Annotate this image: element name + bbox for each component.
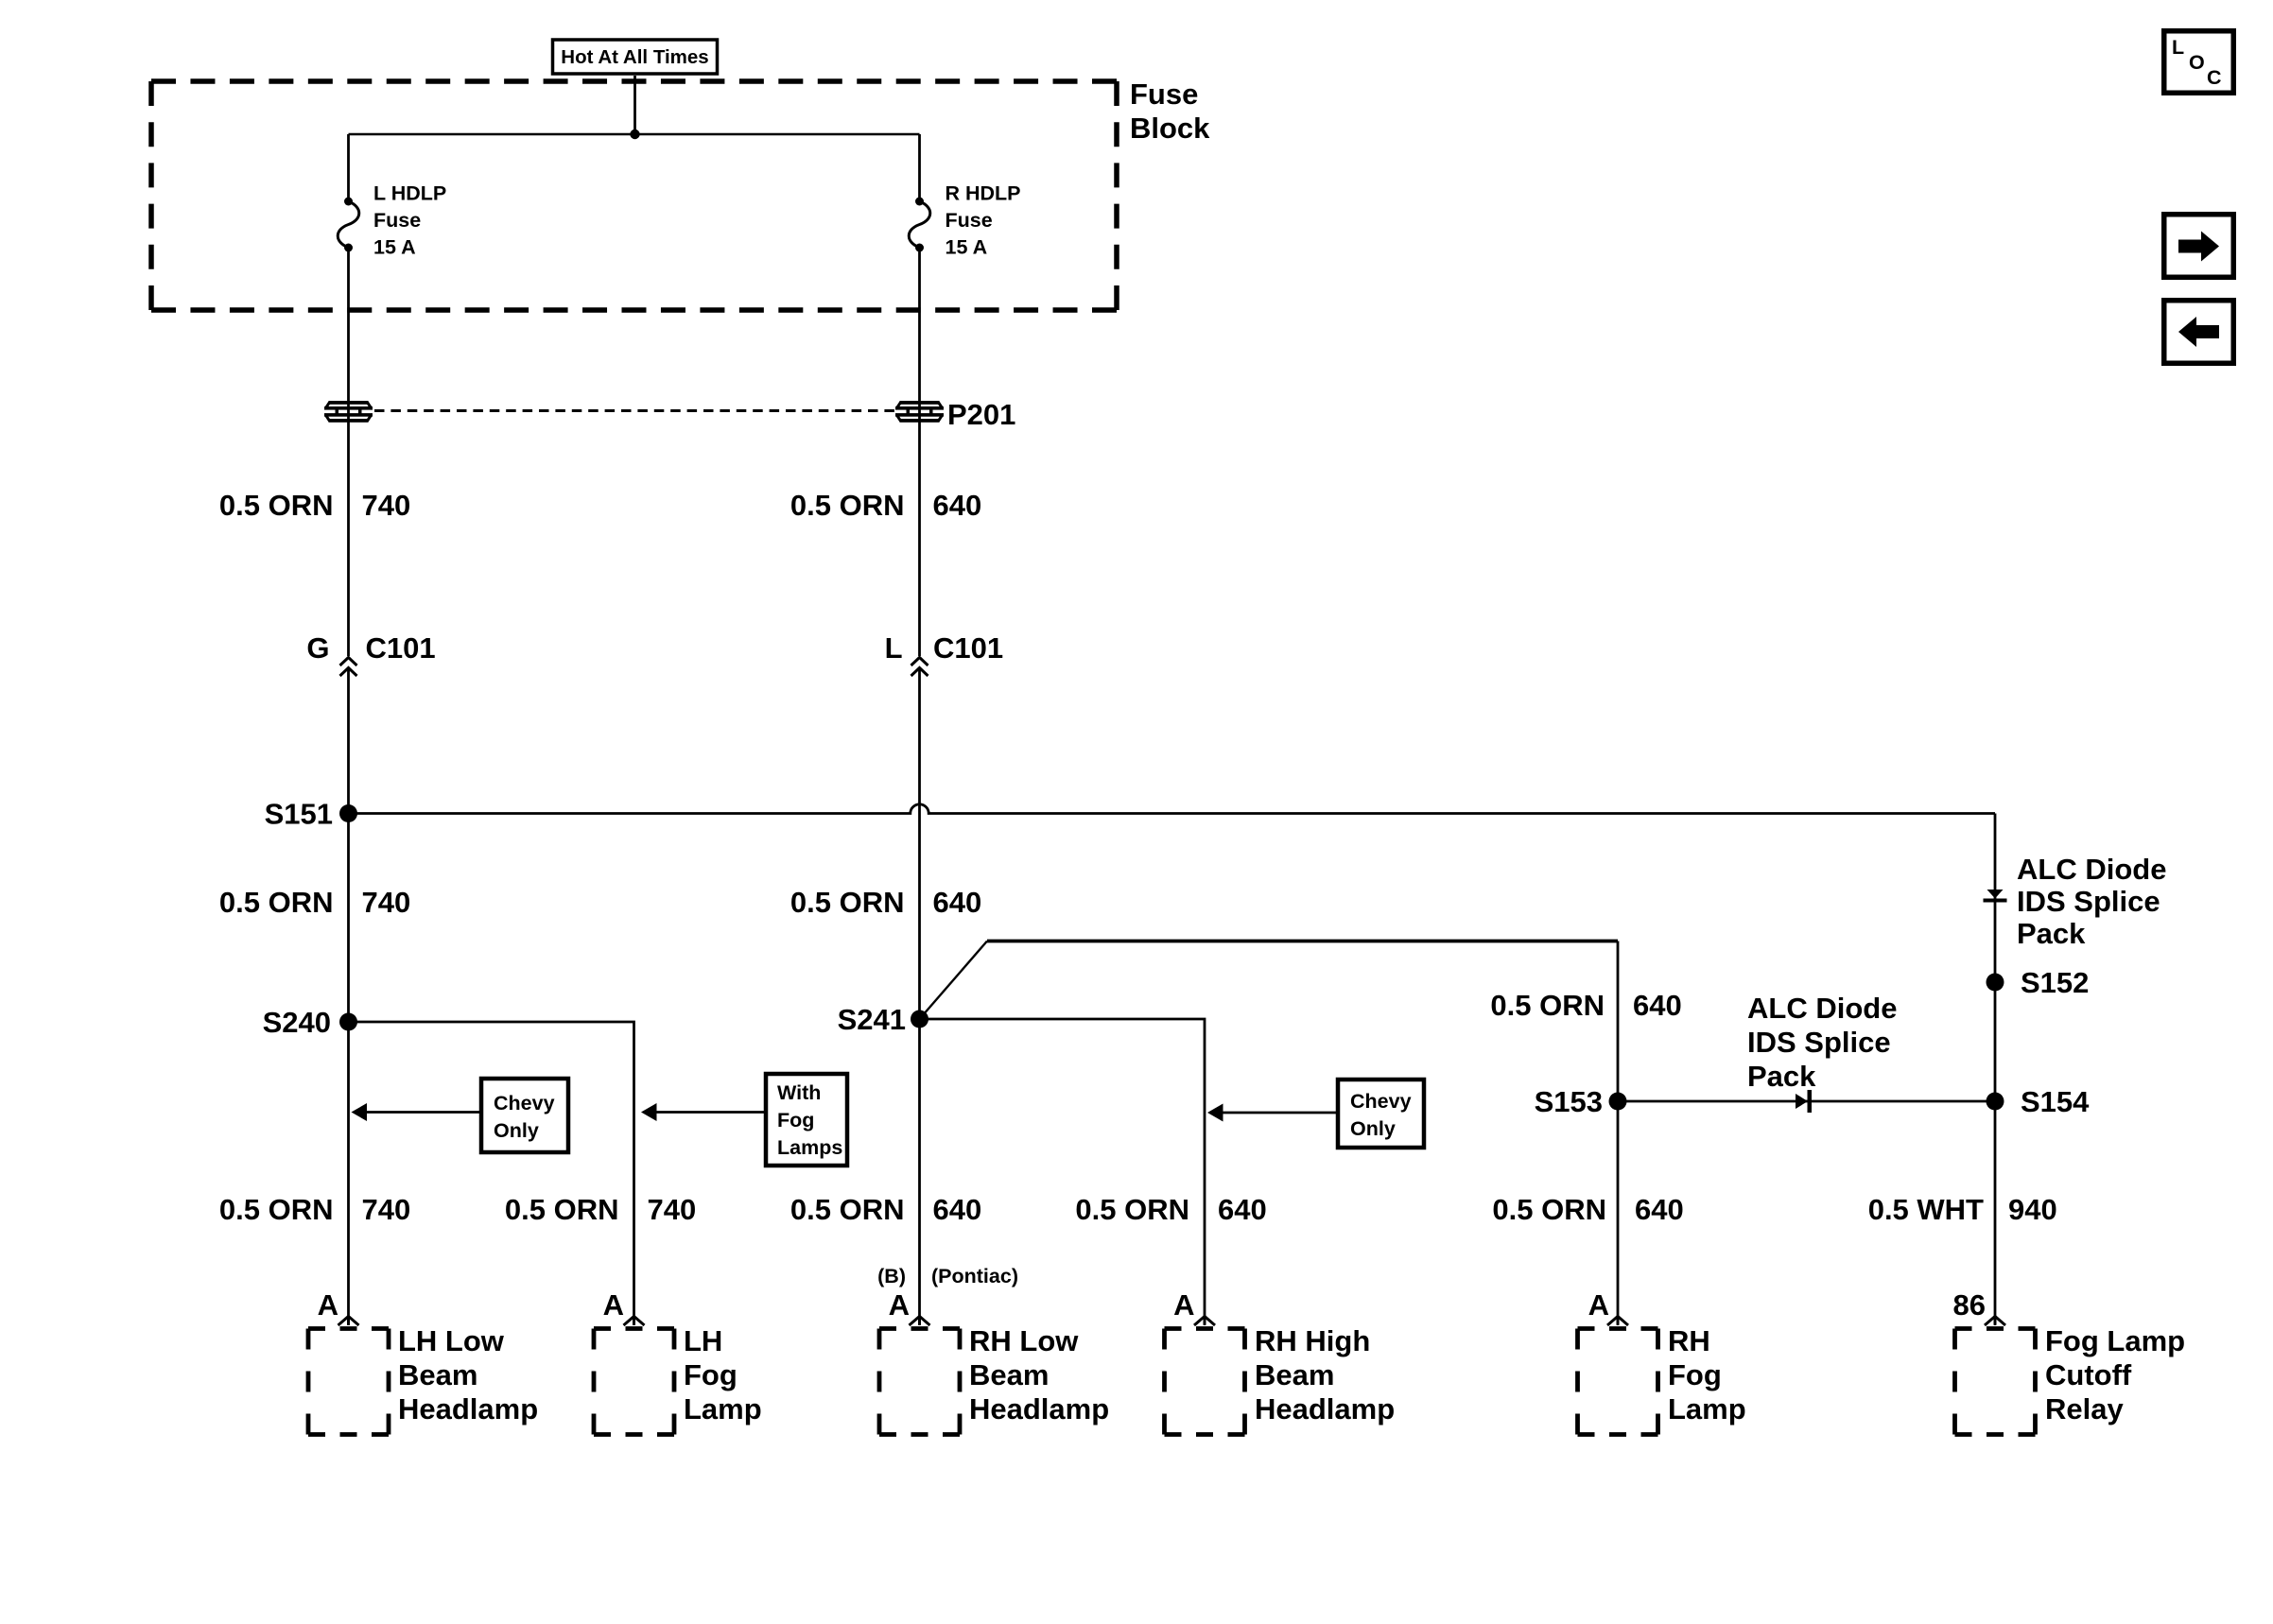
svg-text:A: A (1173, 1288, 1194, 1322)
svg-text:Fuse: Fuse (946, 209, 993, 232)
svg-text:S241: S241 (838, 1003, 906, 1036)
svg-text:Headlamp: Headlamp (1255, 1392, 1395, 1425)
svg-text:C: C (2207, 66, 2222, 89)
svg-text:(B): (B) (877, 1265, 906, 1287)
svg-text:C101: C101 (933, 631, 1003, 665)
svg-text:640: 640 (1218, 1193, 1267, 1226)
svg-text:With: With (777, 1081, 821, 1104)
svg-text:IDS Splice: IDS Splice (1747, 1026, 1891, 1059)
svg-text:Only: Only (1350, 1117, 1396, 1140)
svg-text:0.5 ORN: 0.5 ORN (505, 1193, 619, 1226)
svg-text:Fuse: Fuse (1130, 78, 1198, 111)
svg-text:S154: S154 (2021, 1085, 2090, 1118)
svg-text:Beam: Beam (969, 1358, 1049, 1391)
svg-text:640: 640 (1635, 1193, 1684, 1226)
svg-text:86: 86 (1953, 1288, 1986, 1322)
svg-text:L: L (885, 631, 903, 665)
svg-text:740: 740 (362, 489, 411, 522)
svg-text:L: L (2172, 36, 2184, 59)
svg-text:ALC Diode: ALC Diode (1747, 992, 1897, 1025)
svg-text:Lamp: Lamp (1668, 1392, 1746, 1425)
svg-text:Pack: Pack (2017, 917, 2086, 950)
svg-text:Lamps: Lamps (777, 1136, 842, 1159)
svg-text:O: O (2189, 51, 2205, 74)
svg-text:0.5 ORN: 0.5 ORN (790, 886, 905, 919)
svg-text:0.5 ORN: 0.5 ORN (219, 489, 334, 522)
svg-text:0.5 WHT: 0.5 WHT (1868, 1193, 1984, 1226)
svg-text:740: 740 (362, 886, 411, 919)
svg-text:0.5 ORN: 0.5 ORN (790, 1193, 905, 1226)
svg-text:S153: S153 (1535, 1085, 1603, 1118)
svg-text:S240: S240 (263, 1006, 331, 1039)
svg-text:Pack: Pack (1747, 1060, 1816, 1093)
svg-text:RH High: RH High (1255, 1324, 1370, 1357)
svg-text:15 A: 15 A (373, 236, 416, 259)
svg-text:LH: LH (684, 1324, 722, 1357)
svg-text:L HDLP: L HDLP (373, 182, 446, 205)
svg-text:Beam: Beam (398, 1358, 477, 1391)
svg-text:0.5 ORN: 0.5 ORN (219, 886, 334, 919)
svg-text:Relay: Relay (2045, 1392, 2124, 1425)
svg-text:Fog: Fog (684, 1358, 737, 1391)
svg-text:A: A (603, 1288, 624, 1322)
svg-text:0.5 ORN: 0.5 ORN (1075, 1193, 1189, 1226)
svg-text:Fog: Fog (1668, 1358, 1722, 1391)
svg-text:S151: S151 (265, 798, 333, 831)
svg-text:Chevy: Chevy (494, 1092, 555, 1114)
svg-text:940: 940 (2008, 1193, 2057, 1226)
svg-text:Hot At All Times: Hot At All Times (561, 46, 708, 68)
svg-text:(Pontiac): (Pontiac) (931, 1265, 1018, 1287)
svg-text:RH Low: RH Low (969, 1324, 1079, 1357)
svg-text:15 A: 15 A (946, 236, 988, 259)
svg-text:Beam: Beam (1255, 1358, 1334, 1391)
svg-text:R HDLP: R HDLP (946, 182, 1021, 205)
svg-text:A: A (318, 1288, 338, 1322)
svg-text:740: 740 (648, 1193, 697, 1226)
svg-text:C101: C101 (366, 631, 436, 665)
svg-text:Only: Only (494, 1119, 539, 1142)
svg-text:0.5 ORN: 0.5 ORN (1490, 989, 1605, 1022)
svg-text:S152: S152 (2021, 966, 2089, 999)
svg-text:Headlamp: Headlamp (969, 1392, 1109, 1425)
svg-text:Block: Block (1130, 112, 1210, 145)
svg-text:640: 640 (933, 886, 982, 919)
svg-text:A: A (889, 1288, 910, 1322)
svg-text:IDS Splice: IDS Splice (2017, 885, 2160, 918)
svg-text:640: 640 (1633, 989, 1682, 1022)
svg-text:Fog Lamp: Fog Lamp (2045, 1324, 2185, 1357)
svg-text:LH Low: LH Low (398, 1324, 505, 1357)
svg-text:ALC Diode: ALC Diode (2017, 853, 2166, 886)
svg-text:640: 640 (933, 1193, 982, 1226)
svg-text:Fuse: Fuse (373, 209, 421, 232)
svg-text:Chevy: Chevy (1350, 1090, 1412, 1113)
svg-text:P201: P201 (947, 398, 1015, 431)
svg-text:740: 740 (362, 1193, 411, 1226)
svg-text:640: 640 (933, 489, 982, 522)
svg-text:G: G (306, 631, 329, 665)
svg-text:A: A (1588, 1288, 1609, 1322)
svg-text:RH: RH (1668, 1324, 1710, 1357)
svg-text:Cutoff: Cutoff (2045, 1358, 2132, 1391)
svg-text:Lamp: Lamp (684, 1392, 762, 1425)
svg-text:0.5 ORN: 0.5 ORN (1492, 1193, 1606, 1226)
svg-text:0.5 ORN: 0.5 ORN (790, 489, 905, 522)
svg-text:Fog: Fog (777, 1109, 814, 1132)
svg-text:Headlamp: Headlamp (398, 1392, 538, 1425)
svg-text:0.5 ORN: 0.5 ORN (219, 1193, 334, 1226)
